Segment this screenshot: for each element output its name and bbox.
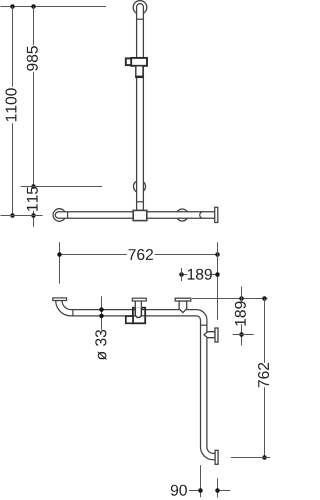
- extension line 90 right: [217, 478, 219, 497]
- bar end wall flange plate: [215, 207, 218, 222]
- slider tab left: [126, 58, 132, 65]
- dimension line 189 right: [241, 287, 243, 346]
- tick at side mount level: [233, 334, 254, 336]
- label 985: [27, 46, 38, 71]
- dimension line 189 top: [182, 274, 218, 276]
- junction square: [133, 210, 147, 220]
- slider plan left block: [126, 316, 133, 323]
- extension line ring level: [21, 186, 103, 188]
- rail joint tick below top cap: [137, 18, 144, 20]
- side mount wall plate: [215, 328, 218, 342]
- extension cross 189 top: [181, 268, 183, 281]
- left end wall plate: [53, 298, 67, 301]
- extension line corner: [217, 242, 219, 320]
- slider plan stem: [135, 301, 141, 308]
- dimension 90: [189, 490, 231, 492]
- extension line bar level: [1, 215, 43, 217]
- bottom end wall plate: [215, 450, 218, 464]
- bottom extension line: [231, 457, 270, 459]
- extension line 90 left: [200, 465, 202, 497]
- plan tube joint tick left: [72, 310, 74, 316]
- plan tube joint tick right run: [201, 324, 207, 326]
- slider plan wall plate: [132, 298, 146, 301]
- corner mount wall plate: [175, 298, 191, 301]
- left wall flange disc of horizontal bar: [53, 209, 66, 222]
- bar end sleeve arc: [200, 212, 203, 219]
- rail joint tick below ring: [137, 201, 144, 203]
- vertical rail tube: [137, 4, 144, 211]
- label 189 top: [188, 269, 212, 280]
- slider body: [131, 58, 147, 66]
- ring on horizontal bar right section: [176, 209, 188, 221]
- dim dot top 1100: [10, 4, 15, 9]
- wall extension line right: [192, 298, 267, 300]
- ring on vertical rail at T junction: [134, 181, 146, 193]
- dimension top extension line: [1, 6, 107, 8]
- dimension line 985: [33, 7, 35, 187]
- extension line left of plan: [59, 242, 61, 283]
- dimension line 762 right: [264, 299, 266, 458]
- label 762 right: [258, 363, 269, 387]
- dimension line 115: [33, 211, 35, 227]
- label 90: [171, 485, 187, 496]
- wall flange disc top: [133, 1, 147, 15]
- slider plan body: [133, 308, 145, 324]
- dim dot top 985: [31, 4, 36, 9]
- horizontal bar tube with rounded left cap: [55, 212, 214, 219]
- label 115: [27, 187, 38, 211]
- dimension diameter line: [101, 296, 103, 330]
- shower head holder: [136, 66, 143, 78]
- slider plan u-tube: [135, 308, 141, 318]
- L-shaped tube: [56, 301, 215, 460]
- label diameter 33: [95, 330, 106, 360]
- corner mount stem with chamfer: [179, 301, 187, 313]
- bar joint tick near left flange: [67, 212, 69, 219]
- label 1100: [6, 88, 17, 121]
- label 189 right: [235, 302, 246, 326]
- dimension line 762 top: [60, 254, 218, 256]
- side mount stem with chamfer: [204, 332, 215, 338]
- label 762 top: [129, 249, 153, 260]
- dimension line 1100: [12, 7, 14, 216]
